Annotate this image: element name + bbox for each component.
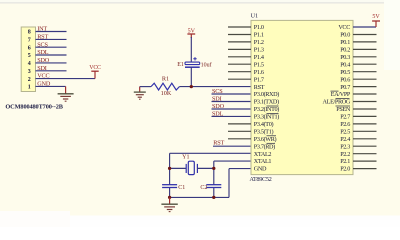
pin name VCC [338,24,350,31]
wire net SCS from connector pin 6 [36,46,67,48]
svg-text:P0.1: P0.1 [340,39,350,46]
pin stub U1 P1.6 [228,71,251,73]
wire 5V to capacitor E1 [190,37,192,62]
power symbol 5V (middle) [187,28,195,38]
wire net RST to U1 P3.7 [213,145,251,147]
svg-text:P1.0: P1.0 [254,24,264,31]
label R1 [162,76,169,83]
svg-text:P2.5: P2.5 [340,129,350,136]
svg-text:SDL: SDL [212,110,224,117]
pin stub U1 P0.6 [353,78,377,80]
wire connector pin 1 to ground [36,86,66,93]
svg-text:P1.1: P1.1 [254,32,264,39]
net label SDO [212,103,225,110]
net label SDI [212,95,222,102]
net label SCS [37,41,48,48]
svg-text:OCM800480T700--2B: OCM800480T700--2B [5,104,63,111]
pin stub U1 P2.2 [353,153,377,155]
svg-text:SDI: SDI [212,95,222,102]
svg-text:GND: GND [254,166,267,173]
pin stub U1 P0.1 [353,41,377,43]
overline RD (P3.7) [267,142,276,144]
crystal Y1 [170,161,214,174]
svg-text:P2.1: P2.1 [340,158,350,165]
pin name P0.2 [340,47,350,54]
connector pin number 5 [28,53,31,59]
svg-text:8: 8 [28,30,31,36]
wire net SDI to U1 [212,101,252,103]
pin stub U1 P0.4 [353,63,377,65]
pin stub U1 P2.3 [353,145,377,147]
overline EA (EA/VPP) [331,90,339,92]
wire net SDO from connector pin 4 [36,62,67,64]
pin stub U1 P2.5 [353,130,377,132]
wire net SCS to U1 [212,93,252,95]
net label SDL [212,110,224,117]
pin name P0.5 [340,69,350,76]
value label 10uf [201,61,212,68]
pin stub U1 P1.4 [228,56,251,58]
pin name P0.3 [340,54,350,61]
svg-text:P2.2: P2.2 [340,151,350,158]
svg-text:RST: RST [213,140,224,147]
overline PROG (ALE/PROG) [336,98,350,100]
net label SDO [37,57,50,64]
power symbol 5V (top right) [372,14,380,27]
svg-text:P2.7: P2.7 [340,114,350,121]
pin stub U1 P1.0 [228,26,251,28]
pin name P3.7(RD) [254,143,275,150]
wire R1 to RST pin of U1 [179,86,251,88]
pin name P1.2 [254,39,264,46]
overline INT1 (P3.3) [267,113,279,115]
ground symbol (crystal) [161,197,177,211]
svg-text:P1.7: P1.7 [254,76,264,83]
svg-text:3: 3 [28,69,31,75]
label C2 [200,185,207,191]
net label GND [37,81,51,88]
svg-text:XTAL1: XTAL1 [254,158,272,165]
pin name P2.0 [340,166,350,173]
ground symbol (connector) [58,94,74,101]
svg-text:P2.6: P2.6 [340,121,350,128]
pin name P2.2 [340,151,350,158]
pin name P0.7 [340,84,350,91]
svg-text:ALE/PROG: ALE/PROG [323,99,351,106]
wire connector pin 2 to VCC power [36,78,96,80]
pin stub U1 P1.5 [228,63,251,65]
resistor R1 [151,83,179,90]
pin name P0.6 [340,76,350,83]
pin name P1.1 [254,32,264,39]
svg-text:SDI: SDI [37,65,47,72]
pin name P1.0 [254,24,264,31]
pin name P3.0(RXD) [254,91,279,98]
pin name P2.7 [340,114,350,121]
wire net SDO to U1 [212,108,252,110]
net label SDI [37,65,47,72]
svg-text:P3.3(INT1): P3.3(INT1) [254,114,279,121]
pin name P1.3 [254,47,264,54]
pin name RST [254,84,265,91]
svg-text:P3.7(RD): P3.7(RD) [254,143,275,150]
svg-text:C1: C1 [178,185,185,191]
capacitor C2 [206,185,221,188]
pin stub U1 P0.2 [353,48,377,50]
svg-text:P1.3: P1.3 [254,47,264,54]
svg-text:4: 4 [28,61,31,67]
wire XTAL2 to crystal [170,153,251,197]
pin name P2.3 [340,143,350,150]
svg-text:SCS: SCS [37,41,48,48]
svg-text:P1.2: P1.2 [254,39,264,46]
svg-text:E1: E1 [177,62,184,68]
pin stub U1 P0.5 [353,71,377,73]
svg-text:P0.3: P0.3 [340,54,350,61]
pin name GND [254,166,267,173]
pin stub U1 P0.0 [353,34,377,36]
svg-text:RST: RST [37,34,48,41]
pin stub U1 P2.7 [353,115,377,117]
pin stub U1 P2.4 [353,138,377,140]
svg-text:P1.6: P1.6 [254,69,264,76]
pin stub U1 P1.1 [228,34,251,36]
connector pin number 4 [28,61,31,67]
wire E1 to RST net [190,67,192,86]
pin stub U1 P2.1 [353,160,377,162]
svg-text:P2.4: P2.4 [340,136,350,143]
connector pin number 3 [28,69,31,75]
svg-text:10uf: 10uf [201,61,212,68]
pin stub U1 P1.7 [228,78,251,80]
svg-text:P3.1(TXD): P3.1(TXD) [254,99,279,106]
svg-text:P2.0: P2.0 [340,166,350,173]
svg-text:P0.6: P0.6 [340,76,350,83]
overline INT0 (P3.2) [267,105,279,107]
svg-text:5: 5 [28,53,31,59]
pin stub U1 P3.5(T1) [228,130,251,132]
svg-text:P3.6(WR): P3.6(WR) [254,136,277,143]
label E1 [177,62,184,68]
wire net RST from connector pin 7 [36,38,67,40]
svg-text:P3.4(T0): P3.4(T0) [254,121,274,128]
svg-text:10K: 10K [161,90,172,97]
overline WR (P3.6) [267,135,277,137]
capacitor E1 (electrolytic) [185,57,200,67]
svg-text:VCC: VCC [89,65,101,71]
pin name P3.5(T1) [254,129,274,136]
svg-text:SDL: SDL [37,49,49,56]
svg-text:PSEN: PSEN [336,106,351,113]
pin name P0.4 [340,61,350,68]
net label INT [37,26,47,33]
svg-text:P0.4: P0.4 [340,61,350,68]
svg-text:P3.0(RXD): P3.0(RXD) [254,91,279,98]
svg-text:C2: C2 [200,185,207,191]
svg-text:P2.3: P2.3 [340,143,350,150]
connector pin number 6 [28,45,31,51]
wire net SDL from connector pin 5 [36,54,67,56]
pin stub U1 P3.4(T0) [228,123,251,125]
connector part name OCM800480T700--2B [5,104,63,111]
junction crystal right [212,167,215,170]
svg-text:R1: R1 [162,76,169,83]
pin name P3.1(TXD) [254,99,279,106]
svg-text:1: 1 [28,85,31,91]
connector pin number 7 [28,38,31,44]
wire XTAL1 to crystal [214,161,251,197]
overline PSEN [336,105,351,107]
svg-text:SDO: SDO [212,103,225,110]
pin stub U1 P2.6 [353,123,377,125]
wire crystal bottom bus [170,196,229,198]
svg-text:RST: RST [254,84,265,91]
wire U1 GND pin down to bottom bus [229,169,251,198]
net label SCS [212,88,223,95]
wire U1 VCC pin to 5V [353,26,376,28]
label C1 [178,185,185,191]
pin stub U1 P3.6(WR) [228,138,251,140]
pin stub U1 EA/VPP [353,93,377,95]
ground symbol (R1) [134,87,146,100]
svg-text:P1.5: P1.5 [254,61,264,68]
pin name ALE/PROG [323,99,351,106]
junction bottom right [212,196,215,199]
wire net SDL to U1 [212,115,252,117]
op-amp/microcontroller U1 body [251,20,353,174]
pin name P3.4(T0) [254,121,274,128]
pin name P3.6(WR) [254,136,277,143]
connector pin number 2 [28,77,31,83]
pin name P1.6 [254,69,264,76]
svg-text:7: 7 [28,38,31,44]
pin stub U1 P1.2 [228,41,251,43]
pin name P3.2(INT0) [254,106,279,113]
svg-text:EA/VPP: EA/VPP [331,91,351,98]
pin stub U1 P0.3 [353,56,377,58]
svg-text:6: 6 [28,45,31,51]
part name AT89C52 [249,176,271,183]
svg-text:5V: 5V [372,14,380,20]
svg-text:SCS: SCS [212,88,223,95]
pin stub U1 ALE/PROG [353,101,377,103]
svg-text:Y1: Y1 [182,155,189,161]
pin name P1.7 [254,76,264,83]
svg-text:VCC: VCC [338,24,350,31]
svg-text:P3.2(INT0): P3.2(INT0) [254,106,279,113]
wire net SDI from connector pin 3 [36,70,67,72]
pin name P0.0 [340,32,350,39]
svg-text:AT89C52: AT89C52 [249,176,271,183]
net label RST [37,34,48,41]
svg-text:U1: U1 [251,13,259,20]
pin name P2.5 [340,129,350,136]
net label RST [213,140,224,147]
pin stub U1 PSEN [353,108,377,110]
pin name P3.3(INT1) [254,114,279,121]
pin name P2.1 [340,158,350,165]
svg-text:P3.5(T1): P3.5(T1) [254,129,274,136]
svg-text:P0.0: P0.0 [340,32,350,39]
pin stub U1 P1.3 [228,48,251,50]
junction crystal left [168,167,171,170]
svg-text:SDO: SDO [37,57,50,64]
svg-text:P0.2: P0.2 [340,47,350,54]
pin name EA/VPP [331,91,351,98]
pin stub U1 P0.7 [353,86,377,88]
label Y1 [182,155,189,161]
pin name P2.6 [340,121,350,128]
svg-text:INT: INT [37,26,47,33]
pin name P2.4 [340,136,350,143]
junction bottom left [168,196,171,199]
wire ground to R1 [140,86,151,88]
svg-text:XTAL2: XTAL2 [254,151,272,158]
pin name P1.4 [254,54,264,61]
pin name P0.1 [340,39,350,46]
connector OCM800480T700--2B body [21,27,35,92]
pin name XTAL2 [254,151,272,158]
svg-text:P1.4: P1.4 [254,54,264,61]
connector pin number 1 [28,85,31,91]
pin name PSEN [336,106,351,113]
net label SDL [37,49,49,56]
pin stub U1 P2.0 [353,168,377,170]
pin name XTAL1 [254,158,272,165]
svg-text:P0.5: P0.5 [340,69,350,76]
junction E1/RST [190,85,193,88]
power symbol VCC (left) [89,65,101,79]
connector pin number 8 [28,30,31,36]
pin name P1.5 [254,61,264,68]
value label 10K [161,90,172,97]
designator U1 [251,13,259,20]
svg-text:P0.7: P0.7 [340,84,350,91]
svg-text:2: 2 [28,77,31,83]
wire net INT from connector pin 8 [36,31,67,33]
net label VCC [37,73,49,80]
capacitor C1 [162,185,177,188]
